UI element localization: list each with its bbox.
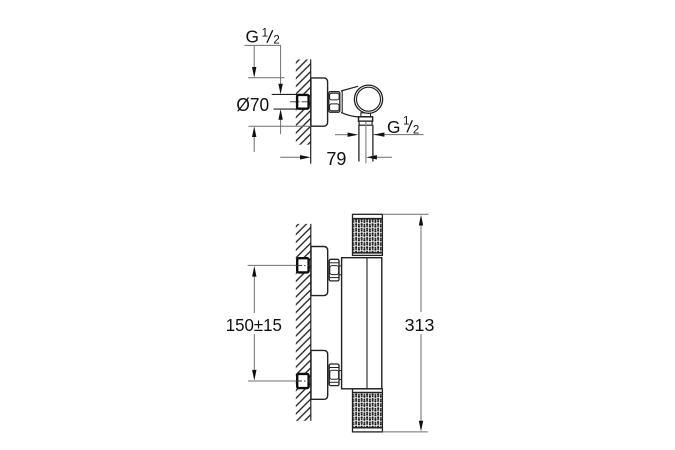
svg-text:G: G bbox=[246, 27, 259, 47]
svg-text:79: 79 bbox=[326, 149, 346, 169]
svg-text:Ø70: Ø70 bbox=[236, 95, 269, 115]
svg-text:2: 2 bbox=[413, 124, 419, 136]
svg-text:150±15: 150±15 bbox=[226, 315, 282, 335]
svg-text:1: 1 bbox=[262, 27, 268, 39]
svg-text:313: 313 bbox=[405, 315, 435, 335]
svg-text:G: G bbox=[387, 117, 400, 137]
svg-text:1: 1 bbox=[403, 116, 409, 128]
svg-text:2: 2 bbox=[273, 35, 279, 47]
